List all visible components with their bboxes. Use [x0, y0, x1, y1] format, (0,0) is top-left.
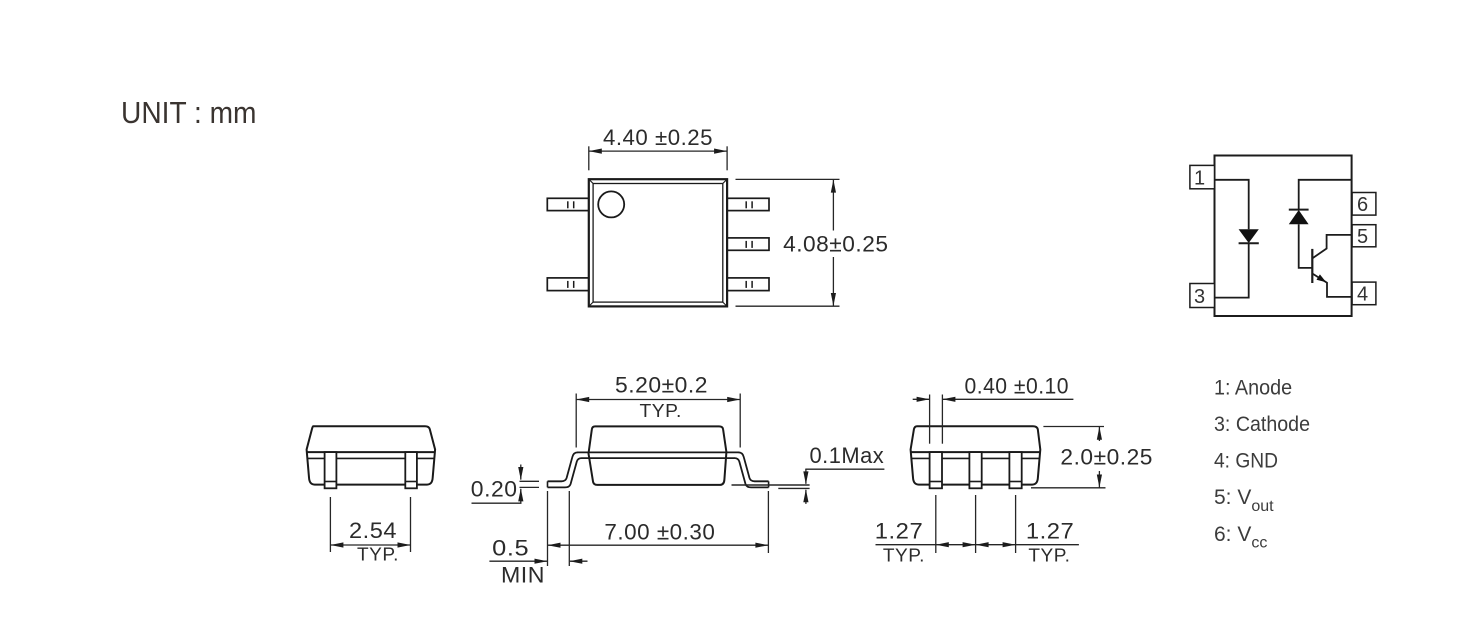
svg-text:4.08±0.25: 4.08±0.25	[783, 232, 888, 257]
wire photodiode to base	[1299, 224, 1313, 268]
svg-text:3: 3	[1194, 286, 1205, 308]
wire cathode (LED to pin3)	[1215, 243, 1249, 297]
wire emitter to pin4	[1312, 274, 1351, 297]
dimension 2.0±0.25	[1031, 427, 1106, 488]
LED D1 triangle	[1239, 229, 1259, 243]
left lead bottom surface	[548, 458, 582, 487]
svg-text:0.40 ±0.10: 0.40 ±0.10	[965, 373, 1070, 398]
dimension 4.08±0.25	[736, 179, 840, 306]
wire collector to pin5	[1312, 235, 1351, 259]
side view right parting line lower	[911, 457, 1040, 459]
pin right-top	[727, 198, 769, 210]
side view right pin 1	[930, 452, 942, 488]
pin left-top	[547, 198, 589, 210]
side view left pin B	[405, 452, 417, 488]
package outline U1	[1215, 156, 1352, 317]
front view body	[589, 426, 727, 485]
dimension 7.00 ±0.30	[548, 491, 769, 553]
pin box 1	[1190, 165, 1215, 188]
right lead top surface	[739, 452, 769, 481]
svg-text:4.40 ±0.25: 4.40 ±0.25	[603, 125, 713, 150]
side view left parting line lower	[307, 457, 435, 459]
pin box 4	[1352, 282, 1376, 305]
dimension 0.1Max	[732, 469, 885, 504]
svg-text:0.20: 0.20	[471, 477, 518, 502]
wire anode (pin1 to LED)	[1215, 180, 1249, 229]
photodiode triangle	[1289, 210, 1309, 224]
transistor Q1 emitter arrow	[1317, 274, 1327, 282]
dimensions 1.27 TYP. x2	[876, 495, 1079, 553]
side view right body	[911, 426, 1041, 484]
pin right-bottom	[727, 278, 769, 291]
svg-text:TYP.: TYP.	[357, 544, 399, 565]
svg-text:1: 1	[1194, 167, 1205, 189]
bevel corner lines	[589, 179, 727, 306]
svg-text:1: Anode: 1: Anode	[1214, 377, 1292, 400]
svg-text:3: Cathode: 3: Cathode	[1214, 413, 1310, 436]
svg-text:1.27: 1.27	[1026, 519, 1075, 544]
lead shoulder line upper	[577, 451, 739, 453]
pin box 5	[1352, 225, 1376, 247]
svg-text:MIN: MIN	[501, 563, 545, 588]
dimension 0.5 MIN	[489, 491, 587, 566]
LED D1 cathode bar	[1239, 242, 1259, 244]
package body outer (top view)	[589, 179, 727, 306]
right lead end cap	[768, 481, 770, 487]
svg-text:5.20±0.2: 5.20±0.2	[615, 372, 708, 397]
side view right pin 2	[969, 452, 981, 488]
svg-text:0.1Max: 0.1Max	[810, 443, 885, 468]
pin right-middle	[727, 238, 769, 250]
package body inner bevel (top view)	[593, 184, 723, 303]
pin box 6	[1352, 193, 1376, 216]
left lead top surface	[548, 452, 578, 481]
svg-text:6: 6	[1357, 194, 1368, 216]
svg-text:4: 4	[1357, 284, 1368, 306]
wire vcc top	[1299, 180, 1352, 210]
svg-text:5: 5	[1357, 226, 1368, 248]
pin box 3	[1190, 284, 1215, 308]
lead shoulder line lower	[582, 457, 735, 459]
pin-1 index circle	[598, 191, 624, 217]
pin left-bottom	[547, 278, 589, 291]
svg-text:1.27: 1.27	[875, 519, 924, 544]
dimension 5.20±0.2 TYP.	[576, 394, 740, 448]
side view left parting line upper	[306, 451, 435, 453]
svg-text:TYP.: TYP.	[883, 545, 925, 566]
side view left body	[307, 426, 436, 484]
right lead bottom surface	[735, 458, 769, 487]
left lead end cap	[547, 481, 549, 487]
svg-text:4: GND: 4: GND	[1214, 450, 1278, 473]
svg-text:2.54: 2.54	[349, 518, 397, 543]
dimension 4.40 ±0.25	[589, 146, 727, 170]
svg-text:TYP.: TYP.	[1028, 545, 1070, 566]
dimension 2.54 TYP.	[330, 497, 410, 552]
svg-text:7.00 ±0.30: 7.00 ±0.30	[604, 520, 715, 545]
svg-text:UNIT : mm: UNIT : mm	[121, 95, 257, 130]
svg-text:TYP.: TYP.	[640, 400, 682, 421]
side view right parting line upper	[911, 451, 1041, 453]
transistor Q1 base bar	[1311, 249, 1313, 283]
photodiode bar	[1289, 209, 1309, 211]
dimension 0.40 ±0.10	[913, 395, 1074, 444]
side view right pin 3	[1009, 452, 1021, 488]
side view left pin A	[325, 452, 337, 488]
svg-text:2.0±0.25: 2.0±0.25	[1060, 445, 1153, 470]
dimension 0.20	[472, 465, 540, 504]
svg-text:0.5: 0.5	[492, 535, 529, 560]
